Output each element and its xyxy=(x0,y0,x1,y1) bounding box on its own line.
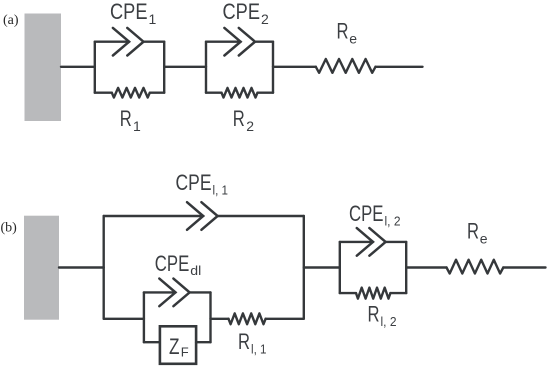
CPE1 symbol (double chevron) xyxy=(113,28,144,56)
svg-text:l, 2: l, 2 xyxy=(381,314,397,329)
svg-text:CPE: CPE xyxy=(223,0,261,24)
svg-text:1: 1 xyxy=(149,11,157,27)
svg-text:CPE: CPE xyxy=(110,0,148,24)
svg-text:F: F xyxy=(181,345,189,360)
node: parallel block 2 left rail xyxy=(205,42,207,93)
wire: block1 top-right xyxy=(144,41,165,43)
svg-text:R: R xyxy=(368,302,380,327)
svg-text:CPE: CPE xyxy=(349,201,384,226)
wire: block1 top-left xyxy=(95,41,129,43)
svg-text:e: e xyxy=(349,31,357,47)
wire: block2 bottom-right xyxy=(258,91,274,93)
node: nested block right rail xyxy=(209,292,211,342)
wire: Re to end (a) xyxy=(376,66,423,68)
svg-text:CPE: CPE xyxy=(176,170,212,195)
node: block l,2 right rail xyxy=(405,242,407,293)
svg-text:e: e xyxy=(480,231,488,247)
resistor R l,2 xyxy=(356,288,390,299)
wire: Re to end (b) xyxy=(503,266,545,268)
wire: block1 bottom-right xyxy=(150,91,164,93)
node: big block left rail xyxy=(102,216,104,319)
wire: block2 top-left xyxy=(206,41,241,43)
wire: electrode to parallel block 1 xyxy=(61,66,95,68)
svg-text:dl: dl xyxy=(190,263,201,278)
wire: block2 bottom-left xyxy=(206,91,222,93)
svg-text:(a): (a) xyxy=(3,13,19,28)
svg-text:R: R xyxy=(467,218,479,243)
svg-text:Z: Z xyxy=(169,334,180,359)
wire: R l,1 to big block right rail xyxy=(266,318,304,320)
wire: block l,2 to Re (b) xyxy=(406,266,446,268)
CPE l,2 symbol (double chevron) xyxy=(357,228,386,256)
node: parallel block 2 right rail xyxy=(272,42,274,93)
wire: nested block bottom-right xyxy=(196,341,210,343)
node: parallel block 1 right rail xyxy=(163,42,165,93)
wire: block l,2 bottom-left xyxy=(340,292,356,294)
wire: block1 bottom-left xyxy=(95,91,112,93)
wire: between block1 and block2 xyxy=(164,66,206,68)
svg-text:CPE: CPE xyxy=(155,251,190,276)
node: parallel block 1 left rail xyxy=(94,42,96,93)
node: block l,2 left rail xyxy=(339,242,341,293)
svg-text:l, 1: l, 1 xyxy=(251,342,267,357)
wire: nested block to R l,1 xyxy=(211,318,229,320)
wire: big block top-left xyxy=(104,215,204,217)
resistor R1 xyxy=(112,88,150,98)
svg-text:2: 2 xyxy=(261,11,269,27)
wire: big block bottom-left xyxy=(104,318,144,320)
svg-text:R: R xyxy=(337,19,349,44)
wire: block l,2 bottom-right xyxy=(390,292,406,294)
svg-text:l, 1: l, 1 xyxy=(213,183,229,198)
wire: block l,2 top-right xyxy=(386,241,407,243)
wire: big block to CPE l,2 block xyxy=(304,266,340,268)
wire: block2 to Re xyxy=(273,66,316,68)
node: big block right rail xyxy=(303,216,305,319)
node: nested block left rail xyxy=(143,292,145,342)
wire: nested block bottom-left xyxy=(144,341,160,343)
CPE2 symbol (double chevron) xyxy=(224,28,255,56)
svg-text:2: 2 xyxy=(246,118,254,134)
svg-text:R: R xyxy=(120,106,132,131)
svg-text:R: R xyxy=(233,106,245,131)
impedance box ZF xyxy=(160,326,196,364)
svg-text:R: R xyxy=(238,329,250,354)
wire: electrode to big parallel block xyxy=(59,266,104,268)
CPE l,1 symbol (double chevron) xyxy=(187,202,218,230)
wire: big block top-right xyxy=(218,215,304,217)
electrode plate (b) xyxy=(24,216,59,320)
resistor Re (a) xyxy=(316,59,376,73)
resistor Re (b) xyxy=(447,260,504,274)
svg-text:1: 1 xyxy=(133,118,141,134)
wire: nested block top-right xyxy=(190,291,211,293)
wire: block2 top-right xyxy=(255,41,273,43)
svg-text:(b): (b) xyxy=(1,221,18,236)
CPE dl symbol (double chevron) xyxy=(159,279,189,307)
resistor R l,1 xyxy=(229,313,266,324)
electrode plate (a) xyxy=(25,14,62,122)
wire: nested block top-left xyxy=(144,291,176,293)
wire: block l,2 top-left xyxy=(340,241,373,243)
svg-text:l, 2: l, 2 xyxy=(385,214,401,229)
resistor R2 xyxy=(222,88,258,98)
